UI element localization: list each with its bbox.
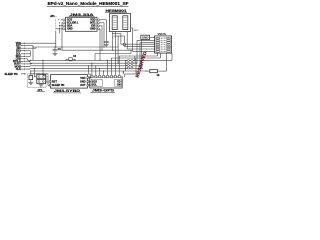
wires J3 right up [89,77,91,79]
svg-text:JM3-SYBD: JM3-SYBD [54,89,81,93]
svg-text:GND: GND [142,36,150,40]
rail r4 y63.2 [30,62,137,64]
label HE5M001 [105,9,127,13]
wire J1.4 down [55,31,57,47]
test point TP1 circle [123,36,126,47]
svg-text:SLEEP PD: SLEEP PD [5,72,18,76]
connector J1 JM3-33A title [69,13,95,17]
resistor R1 1k [146,70,167,78]
module bottom drops [112,32,114,51]
connector J4 body [90,75,122,88]
svg-text:VBUS: VBUS [158,32,166,36]
svg-text:GN: GN [117,84,121,87]
wires g2 labels to x30 vertical [26,53,31,55]
connector J3 body [49,75,88,89]
svg-text:SCL: SCL [92,84,97,87]
USB feed wires [121,43,155,45]
wire x43 down to JP area [42,60,44,75]
rail r5 y65.8 [30,65,140,67]
module U1 HE5M001 [110,14,131,32]
wire SLEEP PD to J3 [30,73,48,75]
wire x62 r1 to r2 [61,47,63,50]
wire BS1 label jog [26,50,31,52]
USB bottom drops [157,53,159,56]
rail r7 y71 [30,70,146,72]
jumper JP1 cluster frame [28,74,46,88]
rail r2b y53.5 [95,53,131,55]
svg-text:GND: GND [67,28,73,31]
wire module right drops to USB [126,32,128,50]
wire D/C label jog [26,47,36,49]
rail r6 y68.4 [30,67,143,69]
svg-text:VDD: VDD [80,77,85,80]
capacitor C2 to ground [104,38,109,46]
J1 shield bracket [55,18,57,31]
wire RST label jog [26,45,33,47]
rail r3 y60.3 [28,59,173,61]
svg-text:JM3-33A: JM3-33A [70,13,95,17]
svg-text:J#1 -: J#1 - [50,14,56,18]
wires g3 labels to rails [26,60,30,62]
rail r1 y47 [33,46,118,48]
wire J1.right drops [105,20,107,38]
svg-text:JM3-GPS: JM3-GPS [92,89,114,93]
svg-text:CLK: CLK [16,67,21,71]
wires J4 top pads up [91,63,93,75]
capacitor C3 [66,58,75,61]
USB connector J2 [155,36,172,53]
svg-text:HE5M001: HE5M001 [106,9,127,13]
wire J1.2 down [61,23,63,47]
capacitor C1 to ground [53,47,58,56]
title EPd-v2_Nano_Module_HE5M001_SF [47,1,129,6]
junction dots [30,46,147,71]
rail r2 y50.2 [62,49,133,51]
connector J1 body [66,17,98,31]
svg-text:EPd-v2_Nano_Module_HE5M001_SF: EPd-v2_Nano_Module_HE5M001_SF [48,1,129,6]
svg-text:GND: GND [90,28,96,31]
left net labels [5,41,22,76]
J1 right pins [98,19,107,30]
wire RST to J3 [43,75,46,77]
svg-text:SLEEP PD: SLEEP PD [52,84,65,87]
wire x33 down [32,47,34,60]
pin header P1 [123,56,136,77]
jumper JP1 [28,68,45,91]
label JM3-GPS [91,89,116,93]
net label arrows [21,43,25,74]
wire VDD label to rail [26,42,56,44]
GND boxed label [141,35,155,66]
svg-text:2B12: 2B12 [133,30,139,32]
J1 left pins [56,19,65,30]
label JM3-SYBD [53,89,81,93]
svg-text:OUT: OUT [80,84,86,87]
